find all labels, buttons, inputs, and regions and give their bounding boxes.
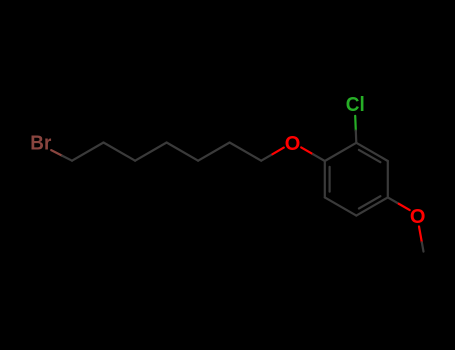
bond C7-O1 bbox=[261, 154, 272, 161]
bond C5-C6 bbox=[198, 143, 230, 161]
benzene ring bond RT-RUL bbox=[325, 143, 357, 161]
bond Cl-RT bbox=[354, 116, 357, 131]
benzene ring double bond RUL-RLL (inner) bbox=[329, 167, 331, 192]
bond O1-ring upper-left vertex bbox=[301, 147, 313, 154]
benzene ring double bond RB-RLR (outer) bbox=[356, 197, 388, 215]
bond RLR-O2 bbox=[388, 197, 399, 203]
bond Br-C1 bbox=[51, 150, 62, 156]
bond O2-CH3 methyl bbox=[419, 227, 422, 243]
bond C4-C5 bbox=[167, 143, 199, 161]
benzene ring double bond RT-RUR (outer) bbox=[356, 143, 388, 161]
bond C1-C2 bbox=[72, 143, 104, 161]
svg-text:O: O bbox=[285, 133, 301, 155]
svg-text:Br: Br bbox=[30, 132, 51, 154]
bond C2-C3 bbox=[104, 143, 136, 161]
benzene ring double bond RUL-RLL (outer) bbox=[324, 161, 326, 197]
bond C3-C4 bbox=[135, 143, 167, 161]
benzene ring bond RLL-RB bbox=[325, 197, 357, 215]
svg-text:Cl: Cl bbox=[346, 94, 365, 116]
benzene ring bond RLR-RUR bbox=[387, 161, 389, 197]
svg-text:O: O bbox=[410, 206, 426, 228]
bond C6-C7 bbox=[230, 143, 262, 161]
benzene ring double bond RB-RLR (inner) bbox=[359, 196, 381, 208]
benzene ring double bond RT-RUR (inner) bbox=[359, 150, 381, 162]
